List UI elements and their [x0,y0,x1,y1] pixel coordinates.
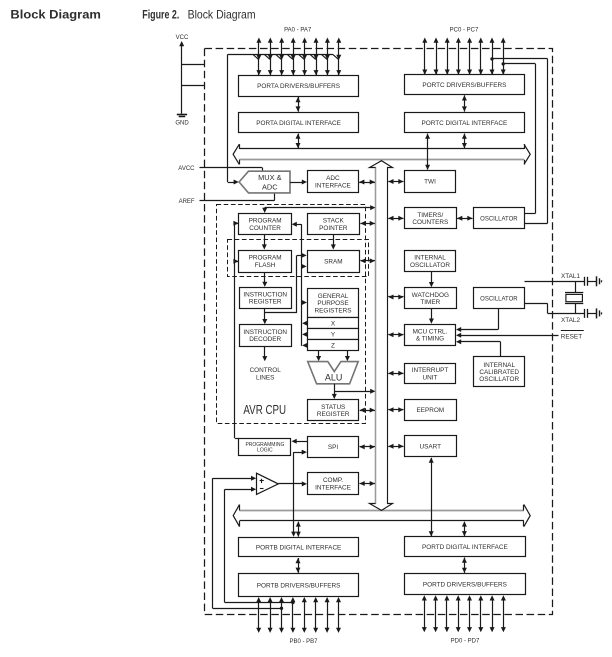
wire PORTB digital interface to data bus [298,522,300,537]
wire PORTA digital interface to data bus [298,134,300,149]
svg-text:XTAL1: XTAL1 [561,273,581,280]
wire PORTD digital interface to data bus [464,522,466,536]
svg-text:CONTROL: CONTROL [250,367,282,374]
block STACK POINTER [308,214,360,235]
svg-text:AREF: AREF [179,199,195,205]
GND stub to border [182,85,205,87]
svg-text:PROGRAM: PROGRAM [249,255,282,262]
comparator positive input from PB3 [213,478,253,480]
TOSC wire from PC6 to timer oscillator [503,63,535,65]
wire PROGRAM FLASH to INSTRUCTION REGISTER [264,272,266,283]
block WATCHDOG TIMER [405,288,457,309]
block OSCILLATOR (main) [474,288,525,309]
svg-text:SPI: SPI [328,444,339,451]
svg-text:INTERNAL: INTERNAL [483,362,515,369]
svg-text:Y: Y [331,332,336,339]
svg-text:PB0 - PB7: PB0 - PB7 [289,639,318,645]
VCC stub to border [182,64,205,66]
TOSC wire from PC7 to timer oscillator [492,58,548,60]
block PORTC DRIVERS/BUFFERS [405,75,525,95]
PORTD pin line PD0 [424,599,426,628]
wire INSTRUCTION DECODER to control lines [264,346,266,358]
crystal [575,281,577,292]
wire PORTD digital interface to drivers [464,558,466,573]
PORTC pin line PC1 [436,42,438,75]
svg-text:PORTD DIGITAL INTERFACE: PORTD DIGITAL INTERFACE [422,544,508,551]
block PORTD DIGITAL INTERFACE [405,537,526,557]
svg-text:PORTA DRIVERS/BUFFERS: PORTA DRIVERS/BUFFERS [257,83,340,90]
svg-text:XTAL2: XTAL2 [561,317,581,324]
XTAL2 load capacitor [584,309,586,318]
wire EEPROM to data bus [388,409,403,411]
wire STACK POINTER to data bus [360,223,375,225]
wire PROGRAMMING LOGIC to PROGRAM COUNTER / PROGRAM FLASH [234,223,236,438]
block PROGRAMMING LOGIC [239,439,291,456]
analog comparator [257,473,279,494]
svg-text:TIMER: TIMER [420,299,440,306]
register Z [308,340,359,351]
svg-text:ADC: ADC [326,175,340,182]
svg-text:INTERFACE: INTERFACE [315,183,351,190]
ADC input mux (MUX & ADC pentagon) [239,171,290,193]
block USART [405,436,457,457]
wire PORTB digital interface to drivers [298,558,300,573]
svg-text:Figure 2.: Figure 2. [142,9,179,22]
PORTC pin line PC2 [447,42,449,75]
svg-text:INSTRUCTION: INSTRUCTION [243,291,287,298]
AREF wire to MUX&ADC bottom [200,200,275,202]
block SRAM [308,251,360,273]
PORTB pin line PB2 [281,601,283,629]
svg-text:COMP.: COMP. [323,477,343,484]
svg-text:GENERAL: GENERAL [318,293,349,300]
wire INSTRUCTION REGISTER to INSTRUCTION DECODER [264,308,266,320]
wire PORTC digital interface to TWI (crosses bus) [427,134,429,170]
wire SPI to data bus [360,446,375,448]
register Y [308,329,359,340]
svg-text:REGISTER: REGISTER [249,299,282,306]
svg-text:FLASH: FLASH [255,262,276,269]
wire MCU CTRL to data bus [388,334,403,336]
svg-text:STACK: STACK [323,218,345,225]
svg-text:TWI: TWI [424,178,436,185]
svg-text:CALIBRATED: CALIBRATED [479,369,519,376]
svg-text:DECODER: DECODER [249,336,281,343]
block PORTD DRIVERS/BUFFERS [405,574,526,595]
block OSCILLATOR (timer) [474,208,525,229]
wire SRAM / registers to PROGRAM COUNTER (address line) [301,224,303,346]
comparator output to COMP INTERFACE [278,483,303,485]
svg-text:GND: GND [175,121,189,127]
PORTD pin line PD3 [458,599,460,628]
block INTERNAL CALIBRATED OSCILLATOR [474,357,525,387]
wire WATCHDOG TIMER to data bus [388,296,403,298]
bottom horizontal data bus (double outline arrow) [240,510,524,512]
chip package dashed border [205,49,553,615]
block PORTB DRIVERS/BUFFERS [239,574,359,597]
wire SPI to PROGRAMMING LOGIC [295,441,307,443]
AVCC wire to MUX&ADC top [200,167,263,169]
wire registers to ALU (operand feeds) [318,351,320,358]
XTAL2 wire from oscillator [525,303,548,305]
wire INTERNAL OSCILLATOR to WATCHDOG TIMER [431,272,433,284]
svg-text:PORTB DRIVERS/BUFFERS: PORTB DRIVERS/BUFFERS [257,582,341,589]
wire PROGRAM COUNTER to PROGRAM FLASH [264,234,266,246]
svg-text:COUNTERS: COUNTERS [412,219,448,226]
wire USART to PORTD interface (crosses buses) [431,458,433,536]
central vertical data bus (outline arrow both ends) [370,161,393,511]
wire TIMERS/COUNTERS to OSCILLATOR [457,218,472,220]
XTAL2 cap ground [596,308,598,318]
block COMP. INTERFACE [308,473,359,495]
PORTB pin line PB7 [338,601,340,629]
wire MUX&ADC to ADC INTERFACE [290,182,303,184]
svg-text:UNIT: UNIT [423,374,438,381]
RESET wire to MCU CTRL [460,335,559,337]
svg-text:COUNTER: COUNTER [249,225,281,232]
svg-text:INTERFACE: INTERFACE [315,485,351,492]
wire PORTC digital interface to data bus [464,134,466,149]
svg-text:VCC: VCC [176,35,189,41]
PORTB pin line PB4 [304,601,306,629]
PORTC pin line PC6 [492,42,494,75]
wire INSTRUCTION REGISTER to SRAM (indirect addressing) [296,255,298,313]
svg-text:REGISTERS: REGISTERS [315,307,352,314]
svg-text:& TIMING: & TIMING [416,336,444,343]
PORTB pin line PB6 [327,601,329,629]
block INTERNAL OSCILLATOR [405,251,456,272]
block PROGRAM FLASH [239,251,292,273]
svg-text:AVCC: AVCC [178,166,195,172]
svg-text:Block Diagram: Block Diagram [188,9,256,22]
svg-text:OSCILLATOR: OSCILLATOR [479,376,519,383]
svg-text:RESET: RESET [561,334,582,341]
svg-text:USART: USART [420,444,442,451]
wire data bus to PROGRAM COUNTER [265,207,372,209]
svg-text:EEPROM: EEPROM [416,407,444,414]
block MCU CTRL. & TIMING [405,325,456,346]
block PROGRAM COUNTER [239,214,292,235]
wire main OSCILLATOR to MCU CTRL [498,309,500,330]
wire SPI to PORTB pins (crosses buses) [294,452,304,454]
PORTA pin line PA7 [338,42,340,75]
svg-text:LOGIC: LOGIC [257,448,273,454]
svg-text:PORTA DIGITAL INTERFACE: PORTA DIGITAL INTERFACE [256,120,341,127]
PORTB pin line PB1 [270,601,272,629]
svg-text:MCU CTRL.: MCU CTRL. [413,328,448,335]
AVR CPU dashed boundary [217,205,366,424]
svg-text:X: X [331,321,336,328]
svg-text:OSCILLATOR: OSCILLATOR [410,262,450,269]
PORTC pin line PC7 [503,42,505,75]
wire INTERRUPT UNIT to data bus [388,373,403,375]
PORTA pin line PA5 [316,42,318,75]
wire STACK POINTER to SRAM [333,234,335,246]
VCC supply line with up arrow [181,43,183,114]
svg-text:SRAM: SRAM [324,258,342,265]
wire ADC INTERFACE to data bus [359,182,375,184]
wire PORTA drivers to digital interface [298,97,300,112]
PORTB pin line PB3 [292,601,294,629]
PORTD pin line PD2 [446,599,448,628]
block INSTRUCTION DECODER [240,325,292,347]
top horizontal data bus (double outline arrow) [239,148,524,150]
wire ALU to STATUS REGISTER [334,384,336,396]
wire ALU result to data bus [334,391,371,393]
svg-text:TIMERS/: TIMERS/ [417,212,443,219]
PORTD pin line PD4 [469,599,471,628]
svg-text:MUX &: MUX & [258,173,281,182]
PORTA pin line PA3 [293,42,295,75]
XTAL1 cap ground [596,276,598,286]
PORTA pin line PA4 [304,42,306,75]
svg-text:INTERRUPT: INTERRUPT [412,367,449,374]
PORTD pin line PD5 [480,599,482,628]
PORTB pin line PB0 [258,601,260,629]
block TIMERS/COUNTERS [405,208,457,229]
PORTC pin line PC3 [458,42,460,75]
PORTA pin line PA2 [281,42,283,75]
svg-text:POINTER: POINTER [319,225,348,232]
wire WATCHDOG TIMER to MCU CTRL [431,309,433,320]
block SPI [308,437,359,458]
comparator negative input from PB4 [225,489,253,491]
XTAL1 wire from oscillator [525,281,585,283]
block PORTA DRIVERS/BUFFERS [239,76,359,97]
svg-text:OSCILLATOR: OSCILLATOR [480,296,518,302]
svg-text:STATUS: STATUS [321,404,345,411]
wire SRAM to data bus [360,260,375,262]
PORTC pin line PC5 [480,42,482,75]
PORTB pin line PB5 [315,601,317,629]
wire COMP INTERFACE to data bus [360,483,375,485]
PORTD pin line PD1 [435,599,437,628]
svg-text:AVR CPU: AVR CPU [243,403,286,417]
block INSTRUCTION REGISTER [240,288,292,309]
svg-text:Z: Z [331,343,335,350]
svg-text:ADC: ADC [262,182,278,191]
svg-text:PURPOSE: PURPOSE [317,300,348,307]
wire STATUS REGISTER to data bus [360,410,375,412]
PORTA pin line PA1 [270,42,272,75]
wire TIMERS/COUNTERS to data bus [388,218,403,220]
block STATUS REGISTER [308,400,359,421]
block GENERAL PURPOSE REGISTERS [308,289,359,318]
block INTERRUPT UNIT [405,364,456,384]
svg-text:PROGRAM: PROGRAM [249,218,282,225]
ground symbol [177,114,187,116]
PORTC pin line PC4 [469,42,471,75]
PORTD pin line PD7 [503,599,505,628]
svg-text:PORTD DRIVERS/BUFFERS: PORTD DRIVERS/BUFFERS [423,582,507,589]
block PORTC DIGITAL INTERFACE [405,113,525,133]
svg-text:INTERNAL: INTERNAL [414,255,446,262]
block TWI [405,171,456,193]
ALU [308,362,359,384]
register X [308,318,359,329]
PORTA pin line PA6 [327,42,329,75]
svg-text:PD0 - PD7: PD0 - PD7 [451,638,480,644]
svg-text:ALU: ALU [325,373,343,383]
wire TWI to data bus [388,181,403,183]
block PORTB DIGITAL INTERFACE [239,538,359,557]
block PORTA DIGITAL INTERFACE [239,113,359,133]
svg-text:PC0 - PC7: PC0 - PC7 [450,28,479,34]
svg-text:WATCHDOG: WATCHDOG [412,292,449,299]
svg-text:PORTB DIGITAL INTERFACE: PORTB DIGITAL INTERFACE [256,544,341,551]
PORTA pin line PA0 [258,42,260,75]
svg-text:PA0 - PA7: PA0 - PA7 [284,28,312,34]
memory block dashed boundary [228,240,369,277]
wire INTERNAL CALIBRATED OSCILLATOR to MCU CTRL [500,342,502,357]
svg-text:INSTRUCTION: INSTRUCTION [243,329,287,336]
wire USART to data bus [388,446,403,448]
svg-text:OSCILLATOR: OSCILLATOR [480,216,518,222]
svg-text:PORTC DRIVERS/BUFFERS: PORTC DRIVERS/BUFFERS [422,82,506,89]
svg-text:Block Diagram: Block Diagram [10,8,100,22]
block EEPROM [405,400,457,421]
wire PORTC drivers to digital interface [464,95,466,111]
PORTC pin line PC0 [424,42,426,75]
XTAL1 load capacitor [584,277,586,286]
PORTA analog bus bar to ADC mux [228,54,333,56]
PORTD pin line PD6 [492,599,494,628]
block ADC INTERFACE [308,171,359,193]
svg-text:REGISTER: REGISTER [317,411,350,418]
svg-text:LINES: LINES [256,375,274,382]
svg-text:PORTC DIGITAL INTERFACE: PORTC DIGITAL INTERFACE [421,120,507,127]
